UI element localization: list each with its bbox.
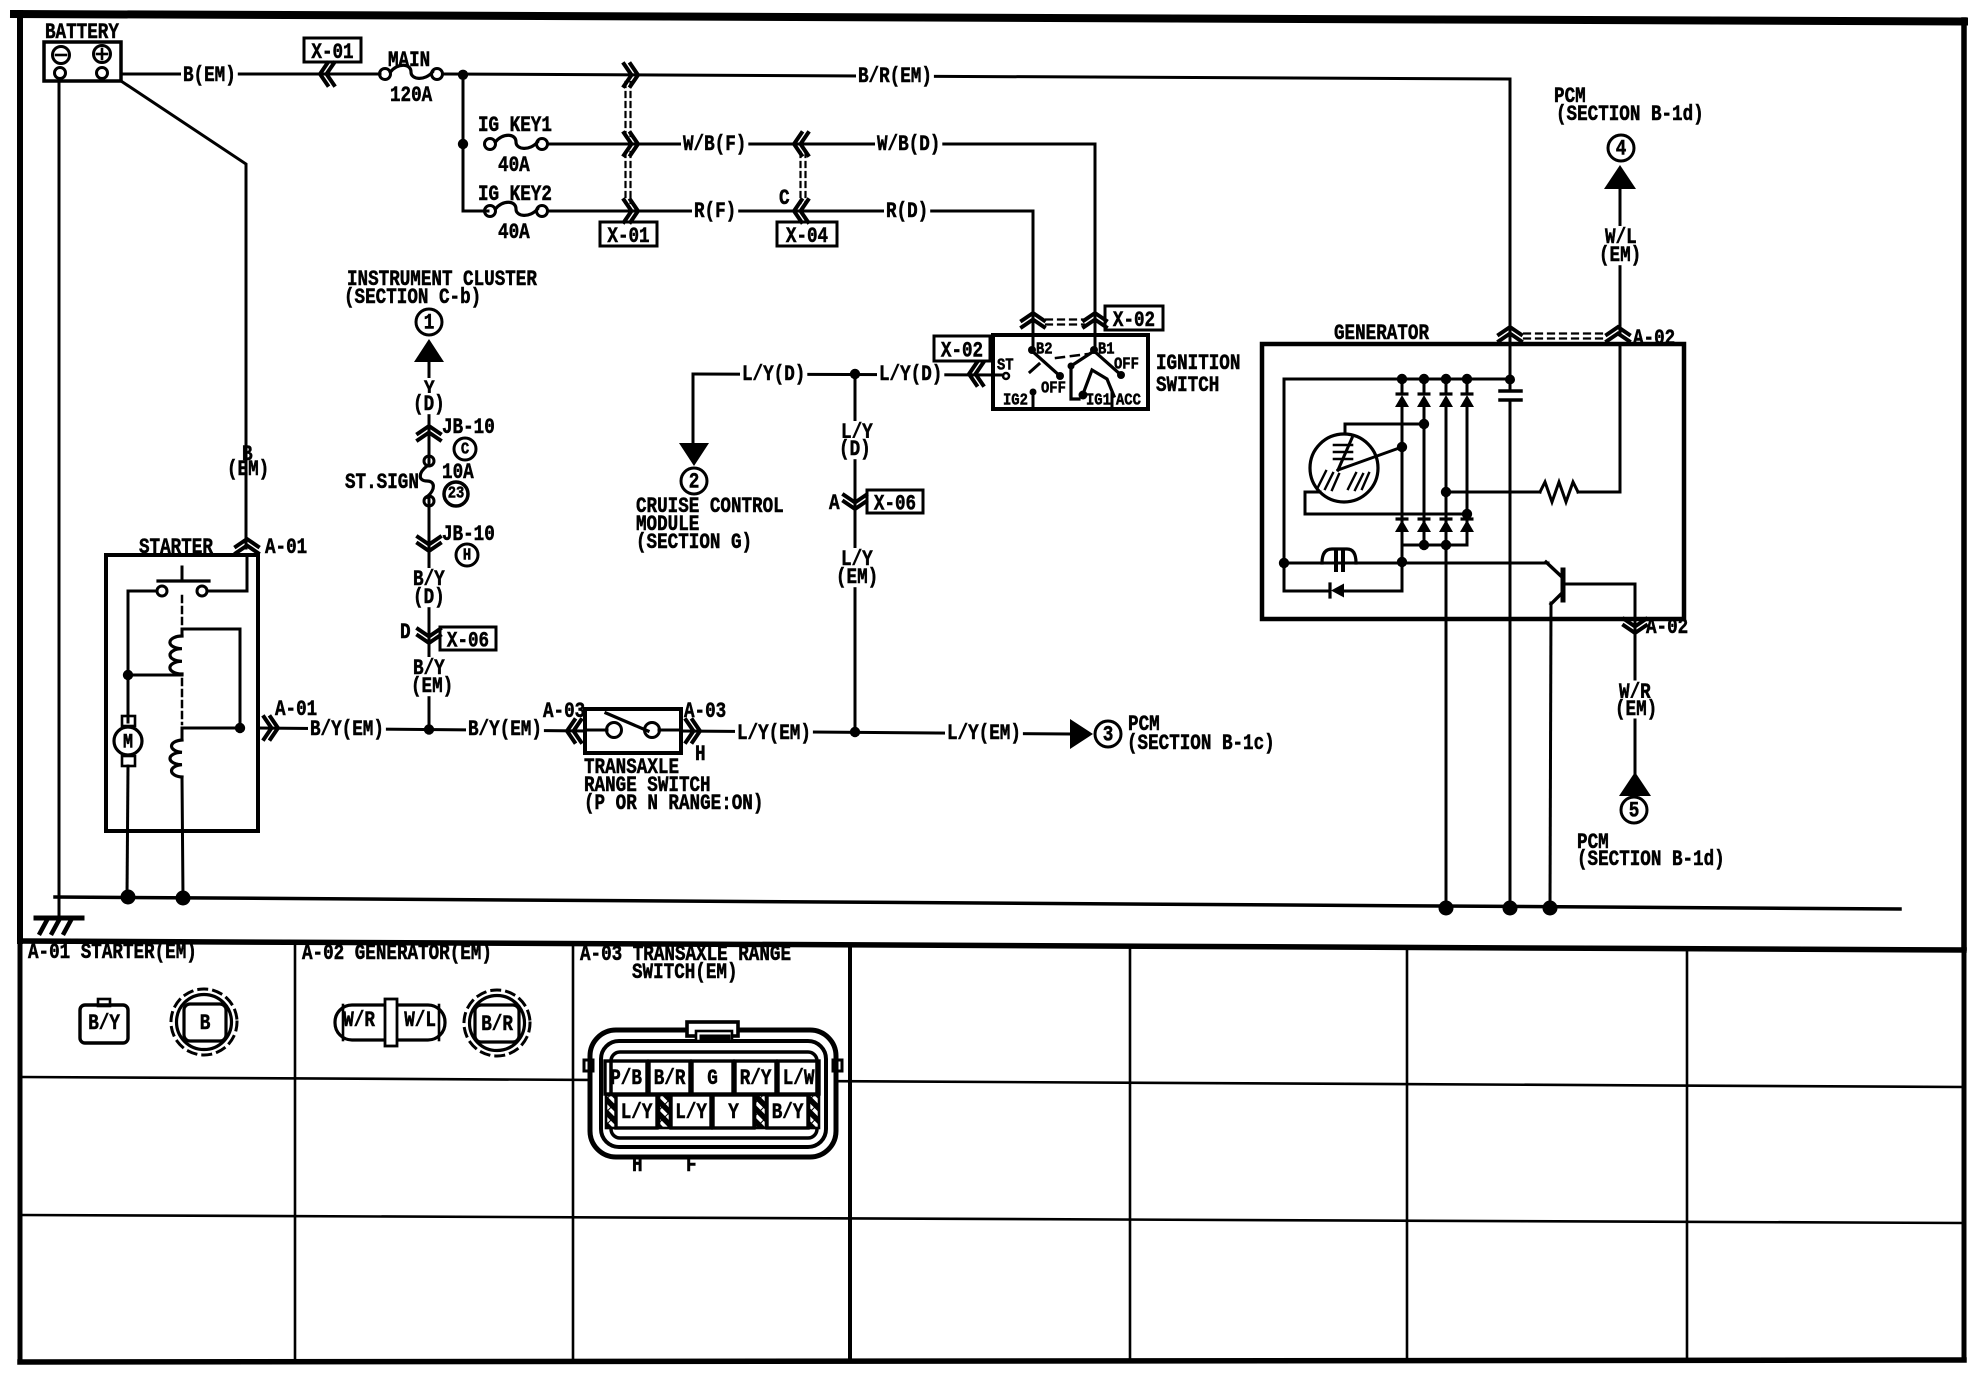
svg-text:MAIN: MAIN	[388, 48, 430, 73]
svg-text:ST.SIGN: ST.SIGN	[345, 470, 419, 495]
svg-text:L/Y(EM): L/Y(EM)	[947, 721, 1021, 746]
wire W/B(D) to ignition switch B1	[800, 144, 1095, 350]
node starter B/Y terminal junction	[235, 723, 245, 733]
svg-text:X-06: X-06	[447, 629, 489, 654]
svg-text:X-04: X-04	[786, 224, 828, 249]
connector X-01 label box (fuse side)	[600, 222, 657, 246]
svg-text:(D): (D)	[413, 392, 445, 417]
connector table grid	[20, 941, 1964, 950]
fuse IG KEY1 40A	[485, 139, 496, 150]
wire coil2 top to terminal wire	[182, 728, 240, 740]
label W/B(D)	[875, 133, 942, 154]
svg-text:120A: 120A	[390, 83, 433, 108]
connector chevron X-04 on R	[801, 200, 809, 222]
ignition switch SW1 box	[993, 335, 1148, 409]
svg-text:F: F	[686, 1153, 697, 1178]
ignition wiper caret	[1083, 370, 1114, 396]
svg-text:(EM): (EM)	[411, 674, 453, 699]
svg-text:B(EM): B(EM)	[183, 63, 236, 88]
terminal B2	[1028, 346, 1036, 354]
wire R(D) to ignition switch B2	[800, 211, 1033, 350]
wire capacitor to ground	[1509, 619, 1512, 908]
wire Y(D) cluster chain upper	[428, 362, 431, 729]
ignition B1 feed	[1071, 351, 1094, 399]
svg-text:A-02: A-02	[1646, 615, 1688, 640]
svg-text:P/B: P/B	[610, 1066, 642, 1091]
connector A-03 pin L/Y (F)	[671, 1095, 711, 1128]
fuse MAIN 120A	[380, 69, 391, 80]
transistor Q1	[1546, 562, 1563, 578]
label L/Y (EM) vertical	[839, 548, 875, 569]
svg-text:(SECTION C-b): (SECTION C-b)	[344, 285, 481, 310]
arrow to PCM 5	[1619, 772, 1651, 796]
battery B1	[44, 42, 121, 81]
node stator winding ends	[1279, 558, 1289, 568]
label L/Y(D) right	[877, 363, 944, 384]
svg-text:40A: 40A	[498, 220, 530, 245]
ignition blade B2-OFF	[1032, 351, 1060, 376]
svg-text:(SECTION B-1c): (SECTION B-1c)	[1127, 731, 1275, 756]
node field bottom tap	[1462, 509, 1472, 519]
wire IG KEY2 branch	[463, 210, 488, 213]
svg-text:A-03: A-03	[543, 699, 585, 724]
svg-text:IG KEY2: IG KEY2	[478, 182, 552, 207]
svg-text:B/Y: B/Y	[772, 1100, 804, 1125]
svg-text:OFF: OFF	[1114, 355, 1139, 374]
diode D3 bottom	[1440, 517, 1453, 520]
continuation circle 1 INSTRUMENT CLUSTER	[416, 309, 442, 335]
label L/Y (D) vertical	[839, 421, 875, 442]
node cluster chain to B/Y junction	[424, 724, 434, 734]
node L/Y(D) junction	[850, 369, 860, 379]
rotor tap diagonal to diode column	[1338, 447, 1402, 470]
node generator grounds	[1439, 901, 1454, 916]
connector X-02 label box (left)	[934, 336, 990, 361]
svg-text:H: H	[695, 742, 706, 767]
starter hold-in coil L2	[170, 740, 182, 777]
connector chevron A-03 left	[574, 720, 582, 742]
arrow to PCM 4	[1604, 165, 1636, 189]
connector chevron X-01 on B/R(EM)	[624, 64, 632, 86]
svg-text:(P OR N RANGE:ON): (P OR N RANGE:ON)	[584, 791, 763, 816]
ground bus wire	[55, 897, 1900, 909]
node IG KEY1 branch	[458, 139, 468, 149]
svg-text:C: C	[461, 440, 469, 459]
svg-text:SWITCH: SWITCH	[1156, 373, 1219, 398]
generator rotor coil circle	[1310, 434, 1378, 502]
starter motor M1 brushes	[122, 716, 135, 726]
svg-text:L/Y(EM): L/Y(EM)	[737, 721, 811, 746]
label B/R(EM)	[856, 65, 934, 86]
battery negative terminal symbol	[53, 47, 70, 64]
terminal ACC	[1111, 393, 1114, 406]
connector X-01 boundary dashed line	[624, 82, 626, 136]
svg-text:A-02: A-02	[1633, 326, 1675, 351]
svg-text:OFF: OFF	[1041, 379, 1066, 398]
svg-text:W/B(D): W/B(D)	[877, 132, 940, 157]
svg-text:H: H	[463, 546, 471, 565]
wire field coil bottom to diode column 4	[1305, 492, 1467, 514]
connector chevron A-02 bottom	[1624, 619, 1646, 627]
svg-text:A-01 STARTER(EM): A-01 STARTER(EM)	[28, 940, 197, 965]
label R(D)	[884, 200, 930, 221]
ground symbol	[58, 897, 61, 917]
wire transistor emitter to ground	[1550, 603, 1551, 908]
diode D2 top	[1423, 379, 1426, 394]
continuation circle 3 PCM	[1095, 721, 1121, 747]
transaxle range switch S2 box	[585, 709, 681, 753]
ignition ST contact tick	[1030, 364, 1039, 372]
connector A-03 pin B/Y	[767, 1095, 808, 1128]
svg-text:W/R: W/R	[343, 1008, 375, 1033]
wire battery negative to ground bus	[58, 81, 61, 897]
wire B/Y(EM) starter to transaxle switch	[258, 728, 585, 731]
connector X-02 label box (right)	[1105, 306, 1163, 330]
junction circled H	[456, 544, 478, 566]
starter switch bar	[158, 579, 209, 582]
connector A-03 blank pin c	[755, 1095, 766, 1128]
connector chevron X-06 on L/Y	[844, 495, 866, 503]
svg-text:(SECTION B-1d): (SECTION B-1d)	[1577, 847, 1725, 872]
connector chevron X-02 on L/Y(D)	[976, 363, 984, 385]
connector A-03 pin P/B	[605, 1061, 647, 1094]
label L/Y(EM) right	[945, 722, 1023, 743]
svg-text:X-02: X-02	[1113, 308, 1155, 333]
svg-text:L/W: L/W	[783, 1066, 815, 1091]
svg-text:R(D): R(D)	[886, 199, 928, 224]
svg-text:X-01: X-01	[311, 40, 353, 65]
junction circled C	[454, 438, 476, 460]
svg-text:IG1: IG1	[1086, 391, 1111, 410]
svg-text:B/Y(EM): B/Y(EM)	[310, 717, 384, 742]
svg-text:R/Y: R/Y	[740, 1066, 772, 1091]
svg-text:A-03: A-03	[684, 699, 726, 724]
connector chevron A-01 starter top	[236, 546, 258, 554]
diode D4 bottom	[1461, 517, 1474, 520]
connector chevron X-06 on B/Y	[418, 629, 440, 637]
zener diode D5	[1328, 584, 1331, 597]
svg-text:L/Y(D): L/Y(D)	[742, 362, 805, 387]
terminal IG2	[1030, 389, 1037, 396]
connector A-03 blank pin b	[659, 1095, 670, 1128]
node top rail diode taps	[1397, 374, 1407, 384]
label W/B(F)	[681, 133, 748, 154]
stator winding loops	[1322, 549, 1356, 563]
svg-text:L/Y: L/Y	[621, 1100, 653, 1125]
wire L/Y(EM) transaxle to PCM	[681, 731, 1070, 734]
starter motor M1	[114, 727, 142, 755]
connector X-02 crossing chevrons	[1022, 320, 1044, 328]
wire motor to ground	[127, 766, 128, 897]
battery positive terminal symbol	[94, 46, 111, 63]
label B(EM)	[181, 64, 238, 85]
rotor brush marks left	[1318, 471, 1326, 487]
svg-text:(EM): (EM)	[1615, 697, 1657, 722]
svg-text:B/R(EM): B/R(EM)	[858, 64, 932, 89]
connector A-03 pin L/Y (H)	[616, 1095, 657, 1128]
starter S1 box	[106, 555, 258, 831]
label B/Y(EM) right	[466, 718, 544, 739]
svg-text:(EM): (EM)	[227, 457, 269, 482]
wire rotor top to diode column 2	[1345, 424, 1424, 434]
connector A-03 pin B/R	[649, 1061, 690, 1094]
wire branch to pull-in coil	[128, 674, 182, 677]
svg-text:X-01: X-01	[607, 224, 649, 249]
connector X-06 label box	[440, 627, 496, 650]
svg-text:B/R: B/R	[654, 1066, 686, 1091]
svg-text:B/Y(EM): B/Y(EM)	[468, 717, 542, 742]
node starter grounds	[121, 890, 136, 905]
diode D1 top	[1401, 379, 1404, 394]
node B+ capacitor junction	[1505, 375, 1515, 385]
wire diode column 3 to ground	[1445, 545, 1448, 908]
node bottom rail junctions	[1419, 540, 1429, 550]
rotor winding diagonal	[1338, 438, 1352, 470]
svg-text:Y: Y	[728, 1100, 739, 1125]
diode D3 top	[1445, 379, 1448, 394]
svg-text:JB-10: JB-10	[442, 415, 495, 440]
node L/Y junction	[850, 727, 860, 737]
svg-text:(D): (D)	[413, 585, 445, 610]
svg-text:C: C	[779, 186, 790, 211]
label Y (D)	[422, 378, 437, 399]
continuation circle 5 PCM	[1621, 797, 1647, 823]
connector chevron A-01 on B/Y(EM)	[264, 717, 272, 739]
connector X-04 label box	[777, 222, 837, 246]
svg-text:A-01: A-01	[265, 535, 307, 560]
svg-text:B/R: B/R	[481, 1012, 513, 1037]
diode bridge bottom rail	[1402, 544, 1467, 547]
svg-text:X-06: X-06	[874, 492, 916, 517]
wire fuse branch vertical	[462, 74, 465, 211]
svg-text:(SECTION G): (SECTION G)	[636, 530, 752, 555]
wire W/R to PCM 5	[1634, 720, 1637, 773]
wire R(F) fuse to X-04	[548, 210, 800, 213]
svg-text:ACC: ACC	[1116, 391, 1141, 410]
generator internal top rail	[1284, 378, 1511, 381]
wire W/L(EM) to PCM 4	[1619, 189, 1622, 335]
rotor brush marks right	[1348, 473, 1356, 489]
svg-text:4: 4	[1616, 137, 1627, 162]
fuse IG KEY2 40A	[485, 206, 496, 217]
label B/Y (EM)	[411, 657, 447, 678]
svg-text:X-02: X-02	[941, 339, 983, 364]
svg-text:W/B(F): W/B(F)	[683, 132, 746, 157]
terminal IG1	[1079, 391, 1088, 400]
node starter branch junction	[123, 670, 133, 680]
svg-text:A-02 GENERATOR(EM): A-02 GENERATOR(EM)	[302, 941, 492, 966]
wire B/R(EM) vertical into generator	[1509, 79, 1512, 380]
svg-text:(D): (D)	[839, 437, 871, 462]
svg-text:40A: 40A	[498, 153, 530, 178]
label R(F)	[692, 200, 738, 221]
wire W/B(F) fuse to X-04	[548, 143, 800, 146]
arrow to cruise control	[679, 443, 709, 466]
continuation circle 2 cruise	[681, 468, 707, 494]
label L/Y(EM) left	[735, 722, 813, 743]
node rotor taps	[1419, 419, 1429, 429]
wire to cruise control module	[692, 374, 695, 443]
generator G1 box	[1262, 344, 1684, 619]
connector X-02 boundary dashes	[1046, 318, 1084, 320]
svg-text:H: H	[632, 1153, 643, 1178]
wire L/Y vertical to X-06	[854, 374, 857, 732]
connector A-03 pin G	[692, 1061, 733, 1094]
connector X-06 label box (L/Y)	[867, 490, 923, 513]
label B/Y (D)	[411, 568, 447, 589]
junction JB-10 C chevron	[418, 433, 440, 441]
connector chevron X-01 on W/B(F)	[624, 133, 632, 155]
svg-text:(SECTION B-1d): (SECTION B-1d)	[1556, 102, 1704, 127]
svg-text:L/Y: L/Y	[675, 1100, 707, 1125]
wire B/R(EM) fuse to generator	[443, 74, 1510, 79]
connector A-02 crossing chevrons	[1499, 334, 1521, 342]
diode D2 bottom	[1418, 517, 1431, 520]
wire switch to motor branch	[128, 591, 157, 722]
svg-text:D: D	[400, 620, 411, 645]
battery post terminals	[55, 68, 66, 79]
page outer border frame	[14, 14, 1964, 22]
label W/R (EM)	[1617, 681, 1653, 702]
connector A-03 pin Y	[713, 1095, 754, 1128]
transaxle switch contacts	[585, 729, 607, 732]
svg-text:5: 5	[1629, 799, 1640, 824]
wire L/Y(D) horizontal	[693, 374, 1003, 375]
wire starter feed inside box	[208, 555, 247, 591]
svg-text:L/Y(D): L/Y(D)	[879, 362, 942, 387]
terminal B1	[1090, 346, 1098, 354]
connector A-03 blank pin a	[606, 1095, 616, 1128]
connector A-02 W/R W/L pin view	[335, 1005, 445, 1040]
starter pull-in coil L1	[170, 636, 182, 674]
arrow to instrument cluster	[414, 339, 444, 362]
rotor slip rings	[1334, 444, 1352, 447]
svg-text:BATTERY: BATTERY	[45, 20, 120, 45]
connector A-03 blank pin d	[809, 1095, 819, 1128]
transistor base wire	[1565, 584, 1635, 619]
svg-text:A: A	[829, 491, 840, 516]
arrow to PCM 3	[1070, 719, 1093, 749]
connector chevron X-01 on R(F)	[624, 200, 632, 222]
connector chevron X-04 on W/B	[801, 133, 809, 155]
svg-text:2: 2	[689, 470, 700, 495]
svg-text:23: 23	[448, 484, 465, 503]
connector A-03 pin L/W	[778, 1061, 819, 1094]
svg-text:IG KEY1: IG KEY1	[478, 113, 552, 138]
svg-text:M: M	[123, 732, 133, 755]
node resistor tap	[1441, 487, 1451, 497]
wire W/L inside generator	[1619, 344, 1622, 492]
capacitor C1	[1509, 379, 1512, 388]
wire resistor to W/L	[1578, 491, 1620, 494]
wire B(EM) battery to starter	[121, 81, 246, 548]
connector A-03 pin R/Y	[735, 1061, 776, 1094]
connector A-02 boundary dashes	[1524, 332, 1604, 334]
ignition blade B1-OFF	[1094, 351, 1121, 375]
transaxle switch blade	[606, 713, 648, 731]
svg-text:B/Y: B/Y	[88, 1011, 120, 1036]
svg-text:(EM): (EM)	[836, 565, 878, 590]
wire winding to transistor collector	[1402, 562, 1548, 565]
wire regulator sense to resistor	[1446, 491, 1540, 494]
svg-text:B: B	[200, 1011, 211, 1036]
svg-text:IG2: IG2	[1003, 391, 1028, 410]
connector chevron X-01 on B(EM)	[327, 63, 335, 85]
svg-text:1: 1	[424, 311, 435, 336]
wire coil1 top loop to terminal	[182, 629, 240, 728]
generator internal left rail	[1283, 379, 1286, 563]
connector chevron A-03 right	[686, 720, 694, 742]
svg-text:G: G	[707, 1066, 718, 1091]
diode D4 top	[1466, 379, 1469, 394]
ignition linkage dashes	[1056, 354, 1088, 358]
node junction at MAIN fuse output	[458, 70, 468, 80]
connector X-04 boundary dashed line	[799, 152, 801, 203]
svg-text:W/L: W/L	[404, 1008, 436, 1033]
connector X-01 label box (battery side)	[304, 38, 361, 62]
continuation circle 4 PCM	[1608, 135, 1634, 161]
wire W/R below generator	[1634, 619, 1637, 679]
svg-text:(EM): (EM)	[1599, 243, 1641, 268]
svg-text:3: 3	[1103, 723, 1114, 748]
wire B(EM) battery to fuse MAIN	[121, 73, 380, 76]
connector A-01 B ring view	[171, 989, 237, 1055]
starter plunger dashed link	[181, 596, 184, 633]
starter switch contacts	[157, 586, 167, 596]
diode D1 bottom	[1396, 517, 1409, 520]
resistor R1	[1540, 482, 1578, 502]
svg-text:SWITCH(EM): SWITCH(EM)	[632, 960, 738, 985]
zener diode loop wire	[1284, 563, 1330, 591]
connector A-01 B/Y pin view	[98, 999, 110, 1006]
svg-text:R(F): R(F)	[694, 199, 736, 224]
label W/L (EM)	[1603, 226, 1639, 247]
wire coil2 to ground	[182, 777, 183, 897]
starter switch stem	[181, 567, 184, 581]
fuse ST.SIGN 10A	[418, 466, 440, 496]
junction circled 23	[444, 482, 468, 506]
label B/Y(EM) left	[308, 718, 386, 739]
connector X-01 boundary dashed line lower	[624, 152, 626, 203]
connector A-02 B/R ring view	[464, 990, 530, 1056]
junction JB-10 H chevron	[418, 537, 440, 545]
stator winding to transistor	[1284, 562, 1402, 565]
label L/Y(D) left	[740, 363, 807, 384]
